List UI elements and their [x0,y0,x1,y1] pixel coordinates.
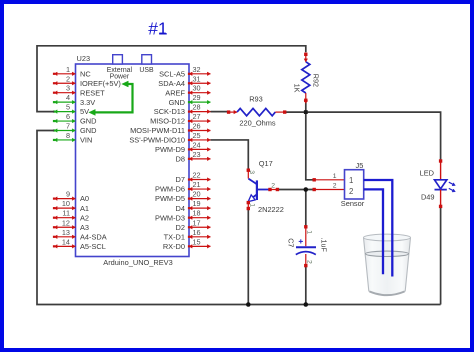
svg-text:9: 9 [66,190,70,199]
svg-text:10: 10 [62,199,70,208]
transistor Q17 pin 3 collector [247,169,249,179]
pin 7 GND [53,129,76,133]
svg-text:U23: U23 [77,54,91,63]
svg-text:A4-SDA: A4-SDA [80,232,107,241]
svg-text:2N2222: 2N2222 [258,205,284,214]
transistor Q17 pin 1 emitter [247,201,249,209]
svg-text:18: 18 [193,209,201,218]
svg-text:17: 17 [193,218,201,227]
svg-text:14: 14 [62,237,70,246]
svg-text:#1: #1 [148,18,167,38]
pin 10 A1 [53,206,76,210]
sensor probe wire from J5 pin2 [364,189,383,274]
pin 6 GND [53,119,76,123]
pin 32 SCL-A5 [188,72,211,76]
pin 21 PWM-D6 [188,187,211,191]
pin 9 A0 [53,197,76,201]
pin 2 IOREF(+5V) [53,81,76,85]
svg-text:NC: NC [80,69,91,78]
svg-text:R93: R93 [249,95,263,104]
svg-text:2: 2 [271,182,275,189]
pin 18 PWM-D3 [188,216,211,220]
svg-text:2: 2 [305,260,312,264]
svg-text:SCK-D13: SCK-D13 [154,107,185,116]
pin 4 3.3V [53,100,76,104]
svg-text:28: 28 [193,103,201,112]
svg-text:R92: R92 [311,74,320,87]
svg-text:1: 1 [306,230,313,234]
USB notch [142,55,152,64]
svg-text:A3: A3 [80,223,89,232]
svg-text:12: 12 [62,218,70,227]
svg-text:GND: GND [80,117,96,126]
svg-text:13: 13 [62,228,70,237]
wire pin28 to R93 left [211,111,228,113]
svg-text:2: 2 [349,187,353,196]
transistor Q17 body [248,179,269,202]
svg-text:.1uF: .1uF [319,238,328,253]
capacitor C7 top plate [296,246,316,248]
pin 25 SS'-PWM-DIO10 [188,138,211,142]
junction node at R92/R93 cross [304,110,308,114]
svg-text:SCL-A5: SCL-A5 [159,69,185,78]
pin 8 VIN [53,138,76,142]
resistor R92 zigzag [302,62,310,93]
svg-text:GND: GND [80,126,96,135]
resistor R93 pin right [275,111,286,113]
capacitor C7 pin 2 [305,254,307,267]
pin 11 A2 [53,216,76,220]
svg-text:6: 6 [66,112,70,121]
sensor probe wire from J5 pin1 [364,180,393,277]
svg-text:15: 15 [193,237,201,246]
pin 12 A3 [53,225,76,229]
pin 5 5V [53,110,76,114]
pin 14 A5-SCL [53,245,76,249]
svg-text:25: 25 [193,131,201,140]
svg-text:30: 30 [193,84,201,93]
connector J5 body [345,170,364,199]
svg-text:19: 19 [193,199,201,208]
svg-text:21: 21 [193,180,201,189]
svg-text:RESET: RESET [80,88,105,97]
svg-text:5V: 5V [80,107,89,116]
pin 26 MOSI-PWM-D11 [188,129,211,133]
svg-text:SDA-A4: SDA-A4 [158,79,185,88]
External Power notch [113,55,123,64]
svg-text:220_Ohms: 220_Ohms [239,119,275,128]
wire C7 pin2 to bottom rail [305,266,307,304]
svg-text:3: 3 [66,84,70,93]
svg-text:1: 1 [333,173,337,180]
wire node down to C7 pin1 [305,190,307,227]
svg-text:4: 4 [66,93,70,102]
LED D49 pin cathode [439,190,441,208]
svg-text:MISO-D12: MISO-D12 [150,117,185,126]
svg-text:3.3V: 3.3V [80,98,95,107]
svg-text:VIN: VIN [80,136,92,145]
pin 27 MISO-D12 [188,119,211,123]
svg-text:A0: A0 [80,194,89,203]
IC U23 Arduino_UNO_REV3 body [76,64,190,257]
svg-text:26: 26 [193,122,201,131]
capacitor C7 curved plate [296,252,316,255]
LED D49 triangle [435,180,447,189]
svg-text:5: 5 [66,103,70,112]
pin 24 PWM-D9 [188,148,211,152]
resistor R93 zigzag [237,108,275,115]
wire GND net: pin7 down left side along bottom [37,131,441,305]
green net highlight IOREF(+5V) to 5V [89,81,133,115]
pin 28 SCK-D13 [188,110,211,114]
connector J5 pin 2 [313,188,345,190]
LED D49 cathode bar [435,189,447,191]
svg-text:8: 8 [66,131,70,140]
svg-text:D8: D8 [176,154,185,163]
svg-text:3: 3 [248,170,255,174]
svg-text:2: 2 [333,183,337,190]
svg-text:RX-D0: RX-D0 [163,242,185,251]
svg-text:A1: A1 [80,204,89,213]
pin 20 PWM-D5 [188,197,211,201]
pin 1 NC [53,72,76,76]
svg-text:A5-SCL: A5-SCL [80,242,106,251]
svg-text:23: 23 [193,150,201,159]
svg-text:C7: C7 [286,238,295,247]
svg-text:11: 11 [62,209,70,218]
pin 16 TX-D1 [188,235,211,239]
svg-text:D2: D2 [176,223,185,232]
wire 5V net: pin5 to top rail to R92 top [37,46,306,112]
svg-text:PWM-D5: PWM-D5 [155,194,185,203]
svg-text:LED: LED [420,168,434,177]
junction node C7 / bottom rail [304,302,309,307]
svg-text:IOREF(+5V): IOREF(+5V) [80,79,121,88]
wire R93 right to LED anode [286,112,441,160]
water surface [365,251,408,256]
svg-text:J5: J5 [356,161,364,170]
pin 23 D8 [188,157,211,161]
LED D49 emission arrows [449,182,456,192]
pin 17 D2 [188,225,211,229]
pin 30 AREF [188,91,211,95]
svg-text:29: 29 [193,93,201,102]
svg-text:Q17: Q17 [259,159,273,168]
svg-text:16: 16 [193,228,201,237]
svg-text:GND: GND [169,98,185,107]
svg-text:1K: 1K [293,84,302,93]
svg-text:1: 1 [66,65,70,74]
svg-text:USB: USB [139,67,154,74]
svg-text:MOSI-PWM-D11: MOSI-PWM-D11 [130,126,185,135]
glass of water [364,234,411,295]
junction node Q17 base / J5 pin2 / C7 [304,187,309,192]
svg-text:2: 2 [66,74,70,83]
svg-text:AREF: AREF [165,88,185,97]
resistor R92 pin bottom [304,93,308,104]
svg-text:7: 7 [66,122,70,131]
wire LED cathode to bottom rail [440,207,442,305]
junction node emitter / bottom rail [246,302,251,307]
svg-text:D4: D4 [176,204,185,213]
LED D49 pin anode [439,160,441,180]
svg-text:Sensor: Sensor [341,199,365,208]
transistor Q17 pin 2 base [269,188,279,190]
pin 13 A4-SDA [53,235,76,239]
pin 3 RESET [53,91,76,95]
connector J5 pin 1 [313,179,345,181]
svg-text:20: 20 [193,190,201,199]
svg-text:TX-D1: TX-D1 [164,232,185,241]
svg-text:32: 32 [193,65,201,74]
capacitor C7 plus sign [299,239,303,243]
capacitor C7 pin 1 [305,226,307,247]
wire Q17 base to J5 pin2 row [278,189,313,191]
resistor R93 pin left [227,110,237,114]
svg-text:D7: D7 [176,175,185,184]
wire pin25 to Q17 collector [211,140,249,169]
svg-text:D49: D49 [421,192,435,201]
pin 15 RX-D0 [188,245,211,249]
resistor R92 1K pin top [304,53,308,62]
svg-text:A2: A2 [80,213,89,222]
pin 31 SDA-A4 [188,81,211,85]
pin 22 D7 [188,178,211,182]
wire Q17 emitter to bottom rail [247,209,249,305]
svg-text:24: 24 [193,140,201,149]
pin 19 D4 [188,206,211,210]
svg-text:PWM-D6: PWM-D6 [155,185,185,194]
svg-text:1: 1 [249,203,256,207]
svg-text:22: 22 [193,171,201,180]
svg-text:Arduino_UNO_REV3: Arduino_UNO_REV3 [103,258,172,267]
wire R92 bottom down to J5 pin1 row [306,102,314,180]
svg-text:PWM-D3: PWM-D3 [155,213,185,222]
svg-text:1: 1 [349,176,353,185]
svg-text:27: 27 [193,112,201,121]
svg-text:SS'-PWM-DIO10: SS'-PWM-DIO10 [129,136,185,145]
svg-text:31: 31 [193,74,201,83]
pin 29 GND [188,100,211,104]
svg-text:PWM-D9: PWM-D9 [155,145,185,154]
